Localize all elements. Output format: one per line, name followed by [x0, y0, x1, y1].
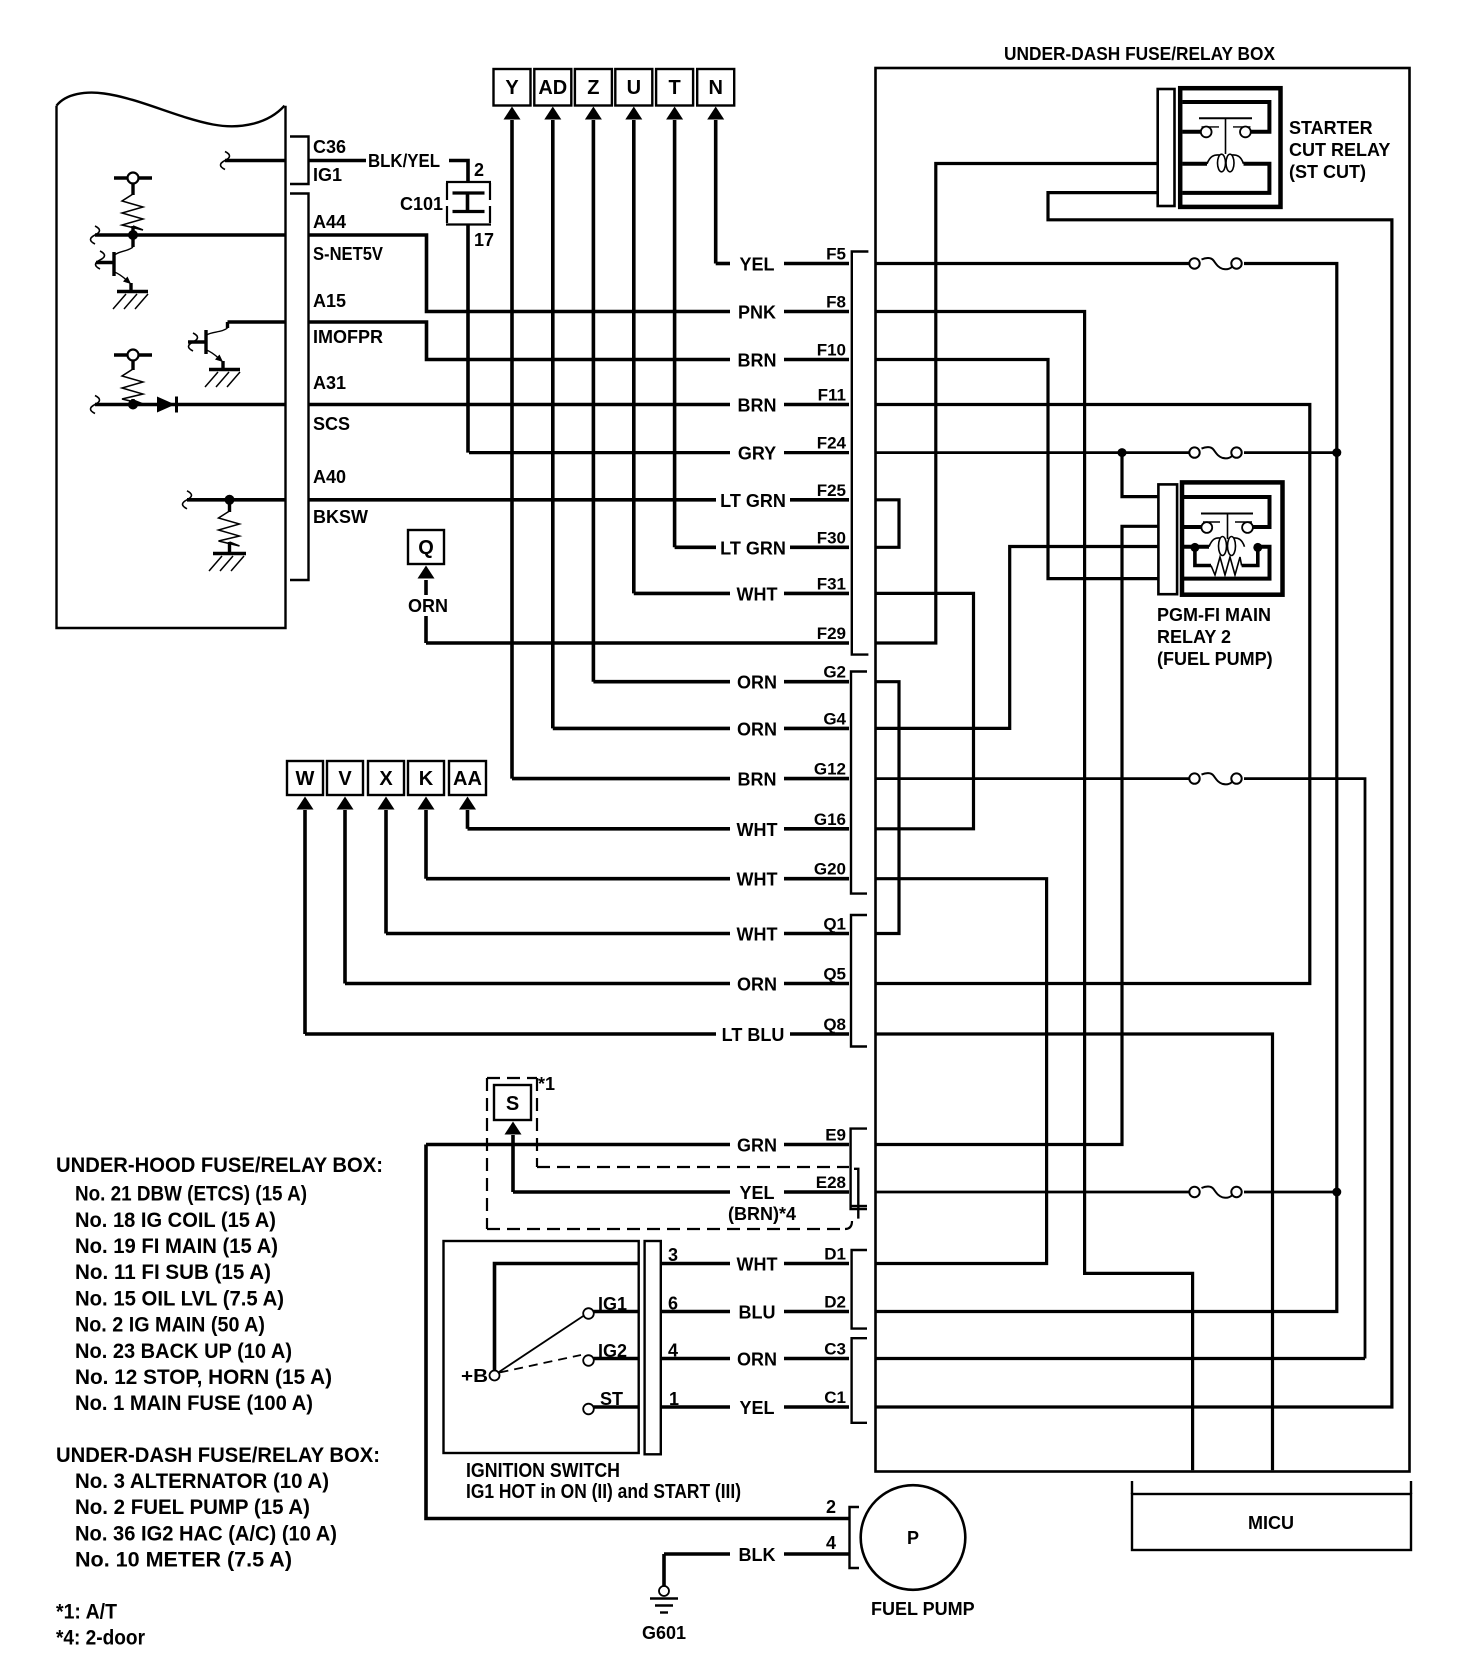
svg-text:X: X	[379, 768, 393, 790]
svg-text:BLK: BLK	[739, 1545, 776, 1565]
svg-text:BRN: BRN	[738, 351, 777, 371]
svg-text:Y: Y	[505, 77, 519, 99]
svg-text:F31: F31	[817, 574, 846, 593]
svg-text:No. 19 FI MAIN (15 A): No. 19 FI MAIN (15 A)	[75, 1235, 278, 1258]
svg-text:G16: G16	[814, 810, 846, 829]
svg-text:WHT: WHT	[737, 584, 778, 604]
svg-text:N: N	[708, 77, 722, 99]
svg-text:LT BLU: LT BLU	[722, 1025, 785, 1045]
svg-text:UNDER-HOOD FUSE/RELAY BOX:: UNDER-HOOD FUSE/RELAY BOX:	[56, 1154, 383, 1177]
svg-text:17: 17	[474, 230, 494, 250]
svg-text:S-NET5V: S-NET5V	[313, 244, 383, 264]
svg-text:ORN: ORN	[737, 975, 777, 995]
svg-text:IG1 HOT in ON (II) and START (: IG1 HOT in ON (II) and START (III)	[466, 1481, 741, 1503]
svg-text:BRN: BRN	[738, 770, 777, 790]
svg-text:LT GRN: LT GRN	[720, 491, 786, 511]
svg-text:No. 10 METER (7.5 A): No. 10 METER (7.5 A)	[75, 1549, 292, 1572]
svg-text:G20: G20	[814, 860, 846, 879]
svg-text:WHT: WHT	[737, 870, 778, 890]
svg-text:No. 2 IG MAIN (50 A): No. 2 IG MAIN (50 A)	[75, 1314, 265, 1337]
svg-text:RELAY 2: RELAY 2	[1157, 627, 1231, 647]
svg-text:No. 21 DBW (ETCS) (15 A): No. 21 DBW (ETCS) (15 A)	[75, 1183, 307, 1206]
svg-text:F29: F29	[817, 624, 846, 643]
svg-text:D2: D2	[824, 1293, 846, 1312]
svg-text:*4: 2-door: *4: 2-door	[56, 1627, 145, 1650]
svg-text:4: 4	[826, 1533, 836, 1553]
svg-text:ORN: ORN	[408, 596, 448, 616]
svg-text:YEL: YEL	[739, 1183, 774, 1203]
svg-text:C101: C101	[400, 194, 443, 214]
svg-text:GRY: GRY	[738, 444, 776, 464]
svg-text:C3: C3	[824, 1340, 846, 1359]
svg-text:ST: ST	[600, 1389, 623, 1409]
svg-text:C36: C36	[313, 137, 346, 157]
svg-text:IG1: IG1	[313, 165, 342, 185]
svg-text:G2: G2	[823, 663, 846, 682]
svg-text:No. 2 FUEL PUMP (15 A): No. 2 FUEL PUMP (15 A)	[75, 1496, 310, 1519]
svg-text:No. 12 STOP, HORN (15 A): No. 12 STOP, HORN (15 A)	[75, 1366, 332, 1389]
svg-text:A31: A31	[313, 373, 346, 393]
svg-text:(BRN)*4: (BRN)*4	[728, 1204, 796, 1224]
svg-text:*1: A/T: *1: A/T	[56, 1601, 117, 1624]
svg-text:AD: AD	[538, 77, 567, 99]
svg-text:LT GRN: LT GRN	[720, 538, 786, 558]
svg-text:2: 2	[826, 1497, 836, 1517]
svg-text:2: 2	[474, 160, 484, 180]
svg-text:PGM-FI MAIN: PGM-FI MAIN	[1157, 605, 1271, 625]
svg-text:No. 23 BACK UP (10 A): No. 23 BACK UP (10 A)	[75, 1340, 292, 1363]
svg-text:MICU: MICU	[1248, 1513, 1294, 1533]
svg-text:WHT: WHT	[737, 1255, 778, 1275]
svg-text:E9: E9	[825, 1126, 846, 1145]
svg-text:C1: C1	[824, 1388, 846, 1407]
svg-text:WHT: WHT	[737, 820, 778, 840]
svg-text:No. 11 FI SUB (15 A): No. 11 FI SUB (15 A)	[75, 1261, 271, 1284]
svg-text:F8: F8	[826, 293, 846, 312]
svg-text:W: W	[296, 768, 315, 790]
svg-text:IGNITION SWITCH: IGNITION SWITCH	[466, 1460, 620, 1482]
svg-text:A44: A44	[313, 212, 346, 232]
svg-text:A40: A40	[313, 467, 346, 487]
svg-text:PNK: PNK	[738, 303, 776, 323]
svg-text:No. 3 ALTERNATOR (10 A): No. 3 ALTERNATOR (10 A)	[75, 1470, 329, 1493]
svg-text:STARTER: STARTER	[1289, 118, 1373, 138]
svg-text:Q5: Q5	[823, 965, 846, 984]
svg-text:U: U	[627, 77, 641, 99]
svg-text:F24: F24	[817, 434, 847, 453]
svg-text:No. 15 OIL LVL (7.5 A): No. 15 OIL LVL (7.5 A)	[75, 1287, 284, 1310]
svg-text:D1: D1	[824, 1245, 846, 1264]
svg-text:G601: G601	[642, 1623, 686, 1643]
svg-text:G4: G4	[823, 709, 846, 728]
svg-text:(FUEL PUMP): (FUEL PUMP)	[1157, 649, 1273, 669]
svg-text:No. 18 IG COIL (15 A): No. 18 IG COIL (15 A)	[75, 1209, 276, 1232]
svg-text:UNDER-DASH FUSE/RELAY BOX: UNDER-DASH FUSE/RELAY BOX	[1004, 44, 1275, 64]
svg-text:ORN: ORN	[737, 1350, 777, 1370]
svg-text:SCS: SCS	[313, 414, 350, 434]
svg-text:CUT RELAY: CUT RELAY	[1289, 140, 1390, 160]
svg-text:E28: E28	[816, 1173, 846, 1192]
svg-text:F30: F30	[817, 528, 846, 547]
svg-text:UNDER-DASH FUSE/RELAY BOX:: UNDER-DASH FUSE/RELAY BOX:	[56, 1444, 380, 1467]
svg-text:GRN: GRN	[737, 1136, 777, 1156]
svg-text:K: K	[419, 768, 434, 790]
svg-text:F25: F25	[817, 481, 846, 500]
svg-text:No. 1 MAIN FUSE (100 A): No. 1 MAIN FUSE (100 A)	[75, 1392, 313, 1415]
svg-text:(ST CUT): (ST CUT)	[1289, 162, 1366, 182]
svg-text:T: T	[668, 77, 680, 99]
svg-text:BLU: BLU	[739, 1303, 776, 1323]
svg-text:BKSW: BKSW	[313, 507, 368, 527]
svg-text:F11: F11	[818, 386, 846, 405]
svg-text:F10: F10	[817, 341, 846, 360]
svg-text:BLK/YEL: BLK/YEL	[368, 151, 440, 171]
svg-text:Q: Q	[418, 537, 434, 559]
svg-text:Q1: Q1	[823, 915, 846, 934]
svg-text:G12: G12	[814, 760, 846, 779]
svg-text:F5: F5	[826, 245, 846, 264]
svg-text:+B: +B	[461, 1366, 488, 1386]
svg-text:No. 36 IG2 HAC (A/C) (10 A): No. 36 IG2 HAC (A/C) (10 A)	[75, 1522, 337, 1545]
svg-text:BRN: BRN	[738, 396, 777, 416]
svg-text:A15: A15	[313, 291, 346, 311]
svg-text:WHT: WHT	[737, 925, 778, 945]
svg-text:*1: *1	[538, 1074, 555, 1094]
svg-text:IG2: IG2	[598, 1341, 627, 1361]
svg-text:Z: Z	[587, 77, 599, 99]
svg-text:S: S	[506, 1093, 519, 1115]
svg-text:Q8: Q8	[823, 1015, 846, 1034]
svg-text:YEL: YEL	[739, 255, 774, 275]
svg-text:ORN: ORN	[737, 673, 777, 693]
svg-text:V: V	[338, 768, 352, 790]
svg-text:AA: AA	[453, 768, 482, 790]
svg-text:IMOFPR: IMOFPR	[313, 327, 383, 347]
svg-text:P: P	[907, 1528, 919, 1548]
svg-text:YEL: YEL	[739, 1398, 774, 1418]
svg-text:ORN: ORN	[737, 719, 777, 739]
svg-text:FUEL PUMP: FUEL PUMP	[871, 1599, 975, 1619]
svg-text:IG1: IG1	[598, 1294, 627, 1314]
